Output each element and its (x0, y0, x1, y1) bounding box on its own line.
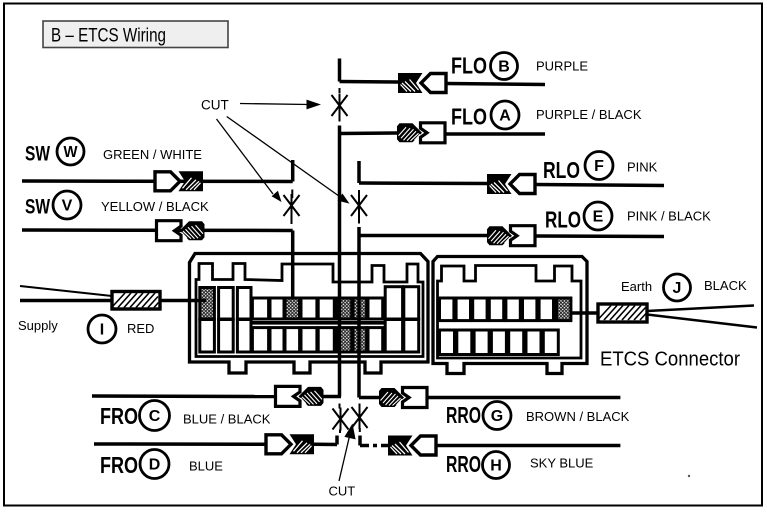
svg-text:BLACK: BLACK (704, 278, 747, 293)
svg-text:SKY BLUE: SKY BLUE (530, 456, 594, 471)
node G circle (483, 402, 511, 430)
svg-text:SW: SW (25, 196, 50, 219)
plug pair SW W (white arrow right + black box) (155, 171, 203, 191)
plug pair RLO E (black arrow right + white box) (487, 226, 535, 246)
wire RRO H left segment (360, 444, 390, 448)
cut X top center (332, 94, 348, 117)
node V circle (53, 191, 81, 219)
arrow CUT to left X (217, 119, 274, 194)
node J circle (664, 274, 691, 301)
svg-text:YELLOW / BLACK: YELLOW / BLACK (101, 199, 209, 214)
svg-text:FLO: FLO (451, 104, 487, 130)
wire center vertical through connector (338, 126, 342, 397)
svg-text:CUT: CUT (329, 484, 356, 499)
svg-text:BLUE / BLACK: BLUE / BLACK (183, 412, 271, 427)
plug pair SW V (black arrow left + white box) (157, 221, 205, 241)
svg-text:B: B (498, 59, 510, 76)
wire RRO G right segment (427, 396, 620, 400)
wire cut dashes bottom verticals (340, 404, 360, 434)
ETCS connector right housing outer shell (433, 257, 587, 374)
wire FRO D horizontal (94, 442, 266, 446)
node E circle (584, 202, 612, 230)
svg-text:RLO: RLO (545, 207, 581, 233)
svg-text:Earth: Earth (621, 279, 652, 294)
svg-text:FRO: FRO (100, 452, 138, 478)
svg-text:GREEN / WHITE: GREEN / WHITE (103, 147, 202, 162)
title box (43, 21, 228, 48)
left housing inner outline with castellations (196, 264, 423, 357)
splice earth BLACK (598, 304, 647, 322)
wire SW W horizontal (22, 179, 293, 183)
cut X bottom left (333, 408, 349, 431)
svg-text:W: W (64, 144, 79, 161)
svg-text:PINK: PINK (627, 160, 658, 175)
svg-text:G: G (491, 408, 503, 425)
wire right vertical through connector (357, 227, 361, 398)
svg-text:J: J (673, 280, 682, 297)
svg-text:FRO: FRO (100, 403, 138, 429)
node D circle (140, 450, 169, 479)
wire FLO B left segment (340, 80, 399, 84)
stray dot mark (688, 475, 690, 477)
svg-text:H: H (490, 458, 502, 475)
right housing pins row2 (440, 330, 455, 355)
plug pair RRO G (black arrow right + white box) (379, 388, 427, 408)
wire cut dashes center vertical (339, 88, 341, 122)
wire earth diverging upper (647, 306, 754, 312)
wire RLO E left segment (359, 234, 487, 238)
wire RLO E right segment (535, 234, 664, 238)
middle small pins row1 (shaded pins at wire entries) (252, 298, 268, 319)
node B circle (491, 53, 518, 80)
wire SW W elbow stub up (291, 160, 295, 182)
svg-text:RED: RED (127, 321, 154, 336)
arrow CUT to right X (227, 117, 341, 198)
svg-text:RRO: RRO (446, 402, 481, 428)
svg-text:PURPLE: PURPLE (536, 59, 588, 74)
wire RRO G elbow segment (359, 396, 379, 400)
svg-text:RLO: RLO (543, 157, 580, 183)
plug pair RRO H (black box + white arrow left) (388, 436, 436, 456)
wire supply splice to pin (160, 299, 206, 303)
wire earth diverging lower (647, 315, 757, 328)
wire FRO C horizontal (92, 394, 276, 398)
svg-text:PINK / BLACK: PINK / BLACK (627, 209, 711, 224)
svg-text:Supply: Supply (18, 318, 58, 333)
cut X right vertical (351, 194, 367, 217)
svg-text:CUT: CUT (201, 98, 229, 113)
arrow CUT to top X (217, 100, 356, 481)
cut X bottom right (352, 406, 368, 429)
wire RLO F left segment (359, 181, 488, 185)
svg-text:RRO: RRO (446, 451, 481, 477)
node C circle (140, 401, 170, 431)
tall right group rows (385, 287, 402, 319)
right housing pins row1 (last pin shaded) (440, 298, 571, 355)
wire SW V down into connector pin (291, 231, 295, 300)
svg-text:E: E (593, 209, 604, 226)
wire supply diagonal feed (20, 286, 112, 296)
plug pair FRO D (white arrow right + black box) (266, 434, 314, 454)
wire FLO B stub top (338, 59, 342, 82)
node F circle (585, 152, 613, 180)
node I circle (88, 315, 116, 343)
node A circle (491, 101, 519, 129)
svg-text:FLO: FLO (451, 53, 487, 79)
middle small pins row2 (252, 328, 268, 352)
wire FLO A right segment (445, 132, 545, 136)
svg-text:SW: SW (25, 143, 50, 166)
wire RRO H right segment (436, 444, 620, 448)
cut X left vertical (284, 194, 300, 217)
wire RLO F stub (357, 161, 361, 183)
wire RRO H stub (358, 436, 362, 446)
right housing inner outline with castellations (438, 266, 582, 359)
svg-text:PURPLE / BLACK: PURPLE / BLACK (536, 107, 642, 122)
svg-text:F: F (594, 158, 604, 175)
svg-text:BLUE: BLUE (189, 459, 223, 474)
wire cut dashes RLO vertical (358, 190, 360, 224)
node H circle (483, 452, 510, 479)
wire FRO D stub up (335, 436, 339, 445)
wire RLO F right segment (535, 185, 664, 186)
svg-text:A: A (499, 108, 511, 125)
plug pair FLO B (black box + white arrow left) (398, 73, 446, 93)
svg-text:I: I (100, 322, 104, 339)
wire FRO C symbol to elbow (323, 395, 341, 399)
plug pair FRO C (white box + black arrow left) (276, 386, 324, 406)
plug pair FLO A (black arrow right + white box) (397, 123, 445, 143)
tall left group row2 (200, 320, 215, 353)
wire SW V horizontal (22, 228, 293, 232)
svg-text:BROWN / BLACK: BROWN / BLACK (526, 409, 630, 424)
wire FLO A left segment (340, 131, 398, 135)
node W circle (57, 138, 84, 165)
wire earth pin to splice (570, 311, 598, 315)
wire cut dashes SW vertical (291, 190, 294, 225)
svg-text:V: V (62, 198, 73, 215)
svg-text:C: C (149, 408, 161, 425)
splice supply RED (112, 292, 160, 310)
left housing pins: tall left group row1 (pin 1 shaded) (200, 287, 419, 352)
arrow bottom CUT to X (339, 434, 350, 481)
wire FRO D symbol to stub (314, 443, 337, 447)
wire supply horizontal feed (20, 299, 112, 303)
svg-text:D: D (149, 457, 161, 474)
left housing mid divider bar (251, 321, 384, 325)
wire FLO B right segment (446, 84, 545, 85)
svg-text:ETCS Connector: ETCS Connector (600, 349, 740, 371)
ETCS connector left housing outer shell (190, 254, 429, 374)
plug pair RLO F (black box + white arrow left) (487, 174, 535, 194)
svg-text:B – ETCS Wiring: B – ETCS Wiring (51, 26, 166, 47)
